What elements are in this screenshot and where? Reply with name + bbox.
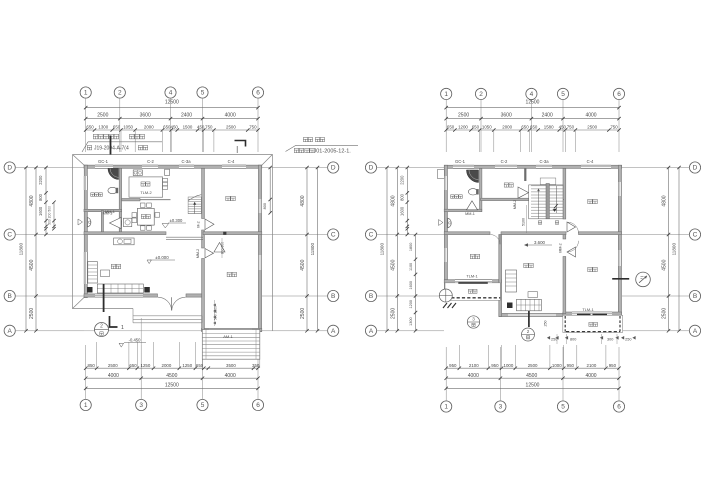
left plan: hall level 0.000 bbox=[147, 255, 175, 264]
right plan: section circle 3 bbox=[467, 316, 479, 328]
right plan: window extension lines from top dims bbox=[480, 130, 576, 152]
left plan: bottom wall living room with window and door gap bbox=[84, 294, 204, 297]
right plan: bath door MM-1 triangle bbox=[465, 201, 477, 216]
svg-text:B: B bbox=[693, 293, 697, 300]
svg-text:6: 6 bbox=[617, 404, 621, 411]
svg-text:350: 350 bbox=[252, 363, 260, 368]
left plan: cabinet with basin left of dining bbox=[119, 218, 132, 226]
right plan: toilet bbox=[468, 189, 478, 195]
svg-text:A: A bbox=[693, 328, 698, 335]
right plan: bath bottom wall bbox=[444, 209, 482, 211]
svg-text:750: 750 bbox=[610, 125, 618, 130]
svg-text:1050: 1050 bbox=[123, 125, 133, 130]
right plan: living room label bbox=[524, 263, 533, 267]
right plan: exterior right wall with windows bbox=[618, 165, 621, 315]
left plan: left major dimension chain 4800 4500 2500 bbox=[29, 166, 38, 333]
svg-text:650: 650 bbox=[86, 125, 94, 130]
svg-text:650: 650 bbox=[196, 363, 204, 368]
left plan: dining label bbox=[141, 214, 150, 218]
svg-text:MM-1: MM-1 bbox=[105, 210, 115, 214]
left plan: kitchen label and TLM-2 bbox=[140, 182, 151, 195]
right plan: living room bottom wall bbox=[499, 313, 566, 316]
svg-text:B: B bbox=[369, 293, 373, 300]
left plan: section line 1 top thick stroke bbox=[110, 136, 112, 155]
left plan: left total dimension 11800 bbox=[18, 166, 27, 333]
left plan: door MM-3 label bbox=[103, 212, 113, 216]
svg-text:4500: 4500 bbox=[166, 373, 177, 379]
right plan: window labels GC-1 C-2 C-3a C-4 bbox=[455, 159, 594, 164]
right plan: left axis circles D C B A bbox=[365, 162, 444, 337]
left plan: column blob on C wall below bedroom bbox=[223, 232, 226, 235]
left plan: section mark top (bracket) bbox=[235, 141, 246, 154]
svg-text:950: 950 bbox=[449, 363, 457, 368]
right plan: bottom axis circles 1 3 5 6 bbox=[441, 347, 625, 412]
right plan: stair labels bbox=[538, 221, 558, 224]
svg-text:1000: 1000 bbox=[504, 363, 514, 368]
svg-text:650: 650 bbox=[129, 363, 137, 368]
left plan: section elbow mark 1 bbox=[110, 316, 125, 331]
left plan: dining table with chairs bbox=[132, 203, 160, 230]
svg-text:GC-1: GC-1 bbox=[98, 159, 109, 164]
svg-text:6: 6 bbox=[256, 90, 260, 97]
right plan: bottom major dimension chain 4000 4500 4000 bbox=[445, 373, 621, 380]
svg-text:650: 650 bbox=[521, 125, 529, 130]
svg-text:D: D bbox=[331, 165, 336, 172]
svg-text:C: C bbox=[7, 232, 12, 239]
left plan: level mark +0.300 with triangle bbox=[162, 218, 186, 228]
svg-text:5: 5 bbox=[561, 91, 565, 98]
left plan: garage bottom wall bbox=[202, 328, 262, 331]
svg-text:5100: 5100 bbox=[522, 218, 526, 226]
svg-text:3: 3 bbox=[472, 316, 475, 321]
svg-text:500 200 500: 500 200 500 bbox=[48, 206, 52, 225]
svg-text:11800: 11800 bbox=[310, 243, 315, 256]
left plan: interior wall stair/bedroom vertical with door gaps bbox=[202, 168, 205, 330]
left plan: bedroom label bbox=[226, 196, 235, 200]
svg-text:2400: 2400 bbox=[542, 113, 553, 119]
svg-text:4800: 4800 bbox=[300, 195, 306, 206]
right plan: circle mark at balcony left bbox=[439, 289, 452, 302]
left plan: callout text and leader (rain pipe note) bbox=[82, 134, 162, 152]
right plan: exterior left wall with windows bbox=[444, 165, 447, 300]
svg-text:MM-2: MM-2 bbox=[513, 200, 517, 209]
svg-text:850: 850 bbox=[88, 363, 96, 368]
left plan: left axis circles D C B A bbox=[4, 162, 84, 337]
svg-text:12500: 12500 bbox=[165, 383, 179, 389]
svg-text:TLM-1: TLM-1 bbox=[582, 307, 593, 312]
svg-text:1250: 1250 bbox=[182, 363, 192, 368]
left plan: drain triangle outside left wall bbox=[78, 219, 83, 225]
svg-text:1500: 1500 bbox=[183, 125, 193, 130]
svg-text:250: 250 bbox=[544, 321, 548, 327]
svg-text:4000: 4000 bbox=[108, 373, 119, 379]
left plan: bedroom door M-2 with swing bbox=[197, 219, 215, 230]
left plan: porch steps lines bbox=[133, 309, 202, 323]
svg-text:2500: 2500 bbox=[97, 113, 108, 119]
svg-text:2000: 2000 bbox=[502, 125, 512, 130]
svg-text:650: 650 bbox=[472, 125, 480, 130]
svg-text:1600: 1600 bbox=[409, 281, 413, 289]
left plan: entrance steps AM-1 bbox=[202, 330, 259, 360]
svg-text:650: 650 bbox=[113, 125, 121, 130]
svg-text:1300: 1300 bbox=[409, 317, 413, 325]
svg-text:C-2: C-2 bbox=[147, 159, 154, 164]
left plan: top major dimension chain 2500 3600 2400 4000 bbox=[84, 113, 260, 121]
svg-text:B: B bbox=[8, 293, 12, 300]
right plan callout: rain note text bbox=[286, 137, 359, 154]
svg-text:2: 2 bbox=[118, 90, 122, 97]
svg-text:800: 800 bbox=[38, 193, 43, 201]
svg-text:6: 6 bbox=[617, 91, 621, 98]
svg-text:1: 1 bbox=[121, 325, 124, 331]
svg-text:C-4: C-4 bbox=[587, 159, 594, 164]
svg-text:800: 800 bbox=[399, 193, 404, 201]
left plan: right major dimension chain 4800 4500 2500 bbox=[300, 166, 309, 333]
svg-text:650: 650 bbox=[447, 125, 455, 130]
svg-text:C-4: C-4 bbox=[228, 159, 235, 164]
svg-text:950: 950 bbox=[609, 363, 617, 368]
svg-text:2000: 2000 bbox=[144, 125, 154, 130]
svg-text:2500: 2500 bbox=[390, 308, 396, 319]
svg-text:2500: 2500 bbox=[226, 125, 236, 130]
right plan: compass circle with pointer bbox=[612, 272, 650, 287]
right plan: armchair right of study bbox=[506, 270, 517, 292]
right plan: bedroom1 label bbox=[588, 199, 597, 203]
svg-text:2500: 2500 bbox=[29, 308, 35, 319]
right plan: right total dimension 11800 bbox=[672, 166, 681, 333]
svg-text:D: D bbox=[693, 165, 698, 172]
svg-text:4800: 4800 bbox=[29, 195, 35, 206]
svg-text:4000: 4000 bbox=[468, 373, 479, 379]
svg-text:4500: 4500 bbox=[526, 373, 537, 379]
left plan: top axis circles 1 2 4 5 6 bbox=[80, 87, 264, 152]
svg-text:450: 450 bbox=[197, 125, 205, 130]
left plan: top total dimension 12500 bbox=[84, 99, 260, 109]
left plan: roof eave outline bbox=[73, 155, 273, 332]
right plan: study door arc bbox=[491, 235, 501, 245]
svg-text:2500: 2500 bbox=[662, 308, 668, 319]
svg-text:3600: 3600 bbox=[501, 113, 512, 119]
svg-text:3: 3 bbox=[499, 404, 503, 411]
svg-text:4500: 4500 bbox=[662, 259, 668, 270]
svg-text:B: B bbox=[331, 293, 335, 300]
left plan: bottom extension lines bbox=[97, 342, 260, 368]
svg-text:C: C bbox=[369, 232, 374, 239]
svg-text:1: 1 bbox=[444, 404, 448, 411]
svg-text:1800: 1800 bbox=[409, 243, 413, 251]
svg-text:750: 750 bbox=[567, 125, 575, 130]
svg-text:1600: 1600 bbox=[38, 206, 43, 216]
svg-text:1600: 1600 bbox=[399, 206, 404, 216]
right plan: bottom extension lines bbox=[459, 345, 606, 368]
left plan: exterior top wall with windows bbox=[84, 165, 262, 168]
right plan: pantry bottom wall bbox=[481, 198, 564, 200]
svg-text:1: 1 bbox=[84, 402, 88, 409]
right plan: left detail dimension chain bbox=[399, 166, 409, 236]
left plan: bathroom label bbox=[91, 193, 103, 197]
svg-text:3.600: 3.600 bbox=[534, 240, 546, 245]
svg-text:950: 950 bbox=[567, 363, 575, 368]
svg-text:2000: 2000 bbox=[162, 363, 172, 368]
svg-text:1300: 1300 bbox=[98, 125, 108, 130]
right plan: study sliding door dark bar bbox=[458, 282, 488, 284]
svg-text:5: 5 bbox=[201, 402, 205, 409]
left plan: corridor/closet divider wall bbox=[101, 211, 103, 234]
right plan: left sub detail chain B area bbox=[409, 233, 417, 333]
right plan: top detail dimension chain bbox=[445, 125, 621, 132]
svg-text:J01-2005-12-1.: J01-2005-12-1. bbox=[314, 149, 352, 155]
left plan: exterior left wall with windows bbox=[84, 165, 87, 298]
svg-text:4800: 4800 bbox=[662, 195, 668, 206]
svg-text:5: 5 bbox=[561, 404, 565, 411]
svg-text:4000: 4000 bbox=[585, 373, 596, 379]
right plan: shower corner unit bbox=[467, 170, 479, 183]
right plan: column dot at living wall bbox=[507, 303, 513, 309]
right plan: sofa at living bottom bbox=[517, 292, 542, 311]
svg-text:TLM-1: TLM-1 bbox=[466, 273, 477, 278]
left plan: window labels GC-1 C-2 C-3a C-4 bbox=[98, 159, 235, 164]
svg-text:C-3a: C-3a bbox=[539, 159, 549, 164]
left plan: right detail dimension 800 bbox=[263, 166, 272, 215]
left plan: garage door inner dims 500 1200 bbox=[213, 300, 217, 326]
svg-text:M-2: M-2 bbox=[197, 221, 201, 227]
left plan: stairs bbox=[188, 195, 201, 214]
svg-text:C: C bbox=[693, 232, 698, 239]
svg-text:4: 4 bbox=[530, 91, 534, 98]
right plan: stairs U-shaped bbox=[525, 168, 563, 218]
left plan: bottom detail dimension chain bbox=[84, 363, 260, 370]
left plan: fridge box top right of kitchen bbox=[165, 169, 170, 175]
svg-text:6: 6 bbox=[256, 402, 260, 409]
svg-text:750: 750 bbox=[205, 125, 213, 130]
svg-text:2: 2 bbox=[100, 324, 103, 330]
left plan: bottom major dimension chain 4000 4500 4000 bbox=[84, 373, 260, 380]
svg-text:C: C bbox=[331, 232, 336, 239]
right plan: level 3.600 with arrow bbox=[524, 240, 552, 247]
left plan: axis A extension line across porch bbox=[84, 318, 202, 345]
svg-text:A: A bbox=[8, 328, 13, 335]
svg-text:2500: 2500 bbox=[528, 363, 538, 368]
right plan: bathroom label bbox=[451, 195, 463, 199]
svg-text:300: 300 bbox=[607, 338, 613, 342]
svg-text:±0.000: ±0.000 bbox=[155, 255, 169, 260]
svg-text:750: 750 bbox=[249, 125, 257, 130]
left plan: level -0.450 with triangle bbox=[119, 337, 146, 347]
right plan: balcony left below study bbox=[445, 283, 500, 301]
right plan: section circle 2 with cut line bbox=[522, 299, 535, 341]
left plan: garage door MM-2 double triangle bbox=[196, 243, 225, 259]
svg-text:TLM-2: TLM-2 bbox=[140, 190, 151, 195]
left plan: toilet bbox=[108, 187, 118, 193]
svg-text:250: 250 bbox=[625, 338, 631, 342]
svg-text:1200: 1200 bbox=[409, 300, 413, 308]
right plan: balcony right below bedroom2 bbox=[563, 315, 623, 332]
right plan: top axis circles 1 2 4 5 6 bbox=[441, 88, 625, 152]
left plan: exterior right wall with windows bbox=[258, 165, 261, 332]
svg-text:1: 1 bbox=[444, 91, 448, 98]
right plan: bedroom2 door with swing bbox=[559, 241, 579, 257]
svg-text:4500: 4500 bbox=[29, 259, 35, 270]
right plan: left total dimension 11800 bbox=[380, 166, 389, 333]
left plan: right axis circles D C B A bbox=[262, 162, 339, 337]
svg-text:4: 4 bbox=[169, 90, 173, 97]
svg-text:2500: 2500 bbox=[587, 125, 597, 130]
right plan: bottom detail dimension chain bbox=[445, 363, 621, 370]
right plan: bath vertical wall bbox=[480, 168, 482, 211]
left plan: right total dimension 11800 bbox=[310, 166, 319, 333]
right plan: exterior top wall with windows bbox=[444, 165, 621, 168]
right plan: axis C wall with door gaps bbox=[444, 232, 621, 235]
left plan: living room TV cabinet bbox=[114, 238, 135, 245]
left plan: left detail dimension chain 2200 800 1600 500 200 500 bbox=[38, 166, 48, 236]
svg-text:11800: 11800 bbox=[380, 243, 385, 256]
left plan: kitchen room inner outline bbox=[129, 177, 163, 197]
right plan: top major dimension chain 2500 3600 2400 4000 bbox=[445, 113, 621, 121]
right plan: left major dimension chain 4800 4500 2500 bbox=[390, 166, 399, 333]
svg-text:J19-2004-A-7(4: J19-2004-A-7(4 bbox=[94, 146, 129, 152]
svg-text:2500: 2500 bbox=[458, 113, 469, 119]
right plan: bedroom2 bottom wall with TLM-1 bbox=[563, 307, 622, 315]
svg-text:-0.450: -0.450 bbox=[129, 337, 142, 342]
svg-text:A: A bbox=[331, 328, 336, 335]
svg-text:1050: 1050 bbox=[482, 125, 492, 130]
svg-text:±0.300: ±0.300 bbox=[170, 218, 183, 223]
left plan: axis C interior wall with openings bbox=[84, 232, 262, 240]
svg-text:12500: 12500 bbox=[526, 383, 540, 389]
svg-text:C-3a: C-3a bbox=[181, 159, 191, 164]
left plan: sofa L-shape bbox=[88, 262, 144, 294]
right plan: pantry label bbox=[504, 183, 513, 187]
left plan: column dots at living window bbox=[87, 287, 150, 293]
svg-text:3: 3 bbox=[139, 402, 143, 409]
right plan: bedroom2 label bbox=[588, 267, 597, 271]
svg-text:MM-1: MM-1 bbox=[465, 212, 475, 216]
svg-text:D: D bbox=[7, 165, 12, 172]
svg-text:3500: 3500 bbox=[226, 363, 236, 368]
right plan: washbasin on left wall bbox=[448, 218, 451, 228]
left plan: kitchen bottom wall with sliding door opening bbox=[122, 199, 171, 201]
svg-text:4000: 4000 bbox=[225, 113, 236, 119]
svg-text:2: 2 bbox=[527, 329, 530, 334]
svg-text:2500: 2500 bbox=[108, 363, 118, 368]
svg-text:800 900: 800 900 bbox=[221, 242, 225, 254]
left plan: bottom axis circles 1 3 5 6 bbox=[80, 345, 264, 411]
svg-text:1250: 1250 bbox=[141, 363, 151, 368]
svg-text:650: 650 bbox=[530, 125, 538, 130]
svg-text:A: A bbox=[369, 328, 374, 335]
right plan: study/living vertical wall bbox=[499, 235, 502, 317]
svg-text:GC-1: GC-1 bbox=[455, 159, 466, 164]
right plan: flue box outside left wall bbox=[438, 170, 445, 179]
right plan: pantry door MM-2 triangle bbox=[513, 187, 528, 209]
svg-text:4500: 4500 bbox=[390, 259, 396, 270]
left plan: stove on top wall bbox=[133, 170, 142, 176]
svg-text:3600: 3600 bbox=[140, 113, 151, 119]
svg-text:4000: 4000 bbox=[585, 113, 596, 119]
svg-text:4000: 4000 bbox=[225, 373, 236, 379]
left plan: living room label bbox=[111, 264, 120, 268]
right plan: bedroom2 sliding door dark bars bbox=[577, 313, 607, 315]
svg-text:250: 250 bbox=[551, 338, 557, 342]
svg-text:4500: 4500 bbox=[300, 259, 306, 270]
right plan: slope hatch below balcony circle bbox=[443, 303, 456, 308]
svg-text:450: 450 bbox=[559, 125, 567, 130]
right plan: study bottom wall bbox=[444, 280, 502, 283]
svg-text:800: 800 bbox=[570, 338, 576, 342]
svg-text:C-2: C-2 bbox=[501, 159, 508, 164]
left plan: section circle 2 at bottom with cut line bbox=[95, 284, 109, 337]
svg-text:MM-2: MM-2 bbox=[196, 249, 200, 258]
svg-text:12500: 12500 bbox=[165, 99, 179, 105]
svg-text:2400: 2400 bbox=[181, 113, 192, 119]
svg-text:2200: 2200 bbox=[38, 175, 43, 185]
left plan: interior wall bath/kitchen vertical bbox=[119, 168, 121, 232]
left plan: left sub detail ticks bbox=[48, 201, 56, 231]
svg-text:800: 800 bbox=[263, 203, 267, 209]
left plan: top detail dimension chain bbox=[84, 125, 260, 132]
svg-text:950: 950 bbox=[491, 363, 499, 368]
svg-text:2: 2 bbox=[479, 91, 483, 98]
right plan: middle vertical wall bbox=[563, 168, 566, 313]
svg-text:AM-1: AM-1 bbox=[223, 334, 233, 339]
svg-text:11800: 11800 bbox=[672, 243, 677, 256]
svg-text:11800: 11800 bbox=[18, 243, 23, 256]
svg-text:12500: 12500 bbox=[526, 99, 540, 105]
svg-text:2100: 2100 bbox=[587, 363, 597, 368]
svg-text:1200: 1200 bbox=[458, 125, 468, 130]
right plan: balcony small dims 250 800 300 250 bbox=[544, 321, 632, 342]
svg-text:MM-2: MM-2 bbox=[559, 243, 563, 252]
left plan: entry double door with arcs bbox=[158, 297, 186, 310]
left plan: shower corner unit (dark) bbox=[108, 169, 119, 180]
left plan: kitchen side counter modules bbox=[163, 178, 168, 189]
right plan: study label and TLM-1 bbox=[466, 254, 479, 278]
svg-text:1580: 1580 bbox=[544, 125, 554, 130]
left plan: garage label bbox=[227, 272, 236, 276]
left plan: MM-1 label at hall door bbox=[105, 210, 115, 214]
svg-text:2100: 2100 bbox=[469, 363, 479, 368]
left plan: window extension lines from top dim chain bbox=[121, 130, 214, 152]
right plan: balcony dim arrow ticks bbox=[547, 334, 636, 344]
left plan: bath door triangle bbox=[110, 218, 122, 229]
left plan: garage interior dims 800 900 bbox=[221, 238, 225, 258]
right plan: top total dimension 12500 bbox=[445, 99, 621, 109]
svg-text:2200: 2200 bbox=[399, 175, 404, 185]
svg-text:1100: 1100 bbox=[409, 263, 413, 271]
svg-text:2500: 2500 bbox=[300, 308, 306, 319]
left plan: bottom total dimension 12500 bbox=[84, 383, 260, 391]
svg-text:4800: 4800 bbox=[390, 195, 396, 206]
svg-text:1: 1 bbox=[84, 90, 88, 97]
right plan: interior dim 5100 near stairs bbox=[522, 205, 527, 233]
right plan: drain triangle outside left wall bbox=[439, 220, 444, 226]
left plan: bath bottom wall bbox=[84, 209, 122, 211]
right plan: right axis circles D C B A bbox=[622, 162, 701, 337]
right plan: bedroom1 door with swing bbox=[567, 222, 579, 233]
right plan: right major dimension chain 4800 4500 2500 bbox=[662, 166, 671, 333]
svg-text:D: D bbox=[369, 165, 374, 172]
left plan: washbasin below bath bbox=[88, 218, 91, 228]
svg-text:5: 5 bbox=[201, 90, 205, 97]
svg-text:1000: 1000 bbox=[552, 363, 562, 368]
right plan: bottom total dimension 12500 bbox=[445, 383, 621, 391]
svg-text:450: 450 bbox=[171, 125, 179, 130]
